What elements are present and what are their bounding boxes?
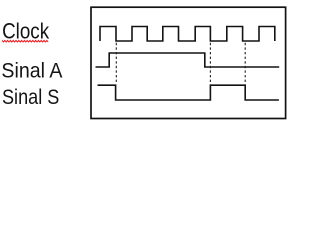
diagram frame box bbox=[91, 7, 286, 118]
svg-text:Sinal S: Sinal S bbox=[2, 85, 59, 109]
clock waveform bbox=[100, 27, 275, 42]
dashed timing line at clock fall 1 bbox=[115, 43, 117, 83]
signal A waveform bbox=[96, 53, 280, 67]
svg-text:Clock: Clock bbox=[2, 18, 50, 43]
dashed timing line at signal S fall 2 bbox=[244, 43, 246, 85]
spellcheck squiggle under Clock bbox=[2, 40, 48, 42]
dashed timing line at clock fall 4 bbox=[209, 43, 211, 85]
svg-text:Sinal A: Sinal A bbox=[1, 59, 63, 83]
signal S waveform bbox=[98, 85, 279, 100]
